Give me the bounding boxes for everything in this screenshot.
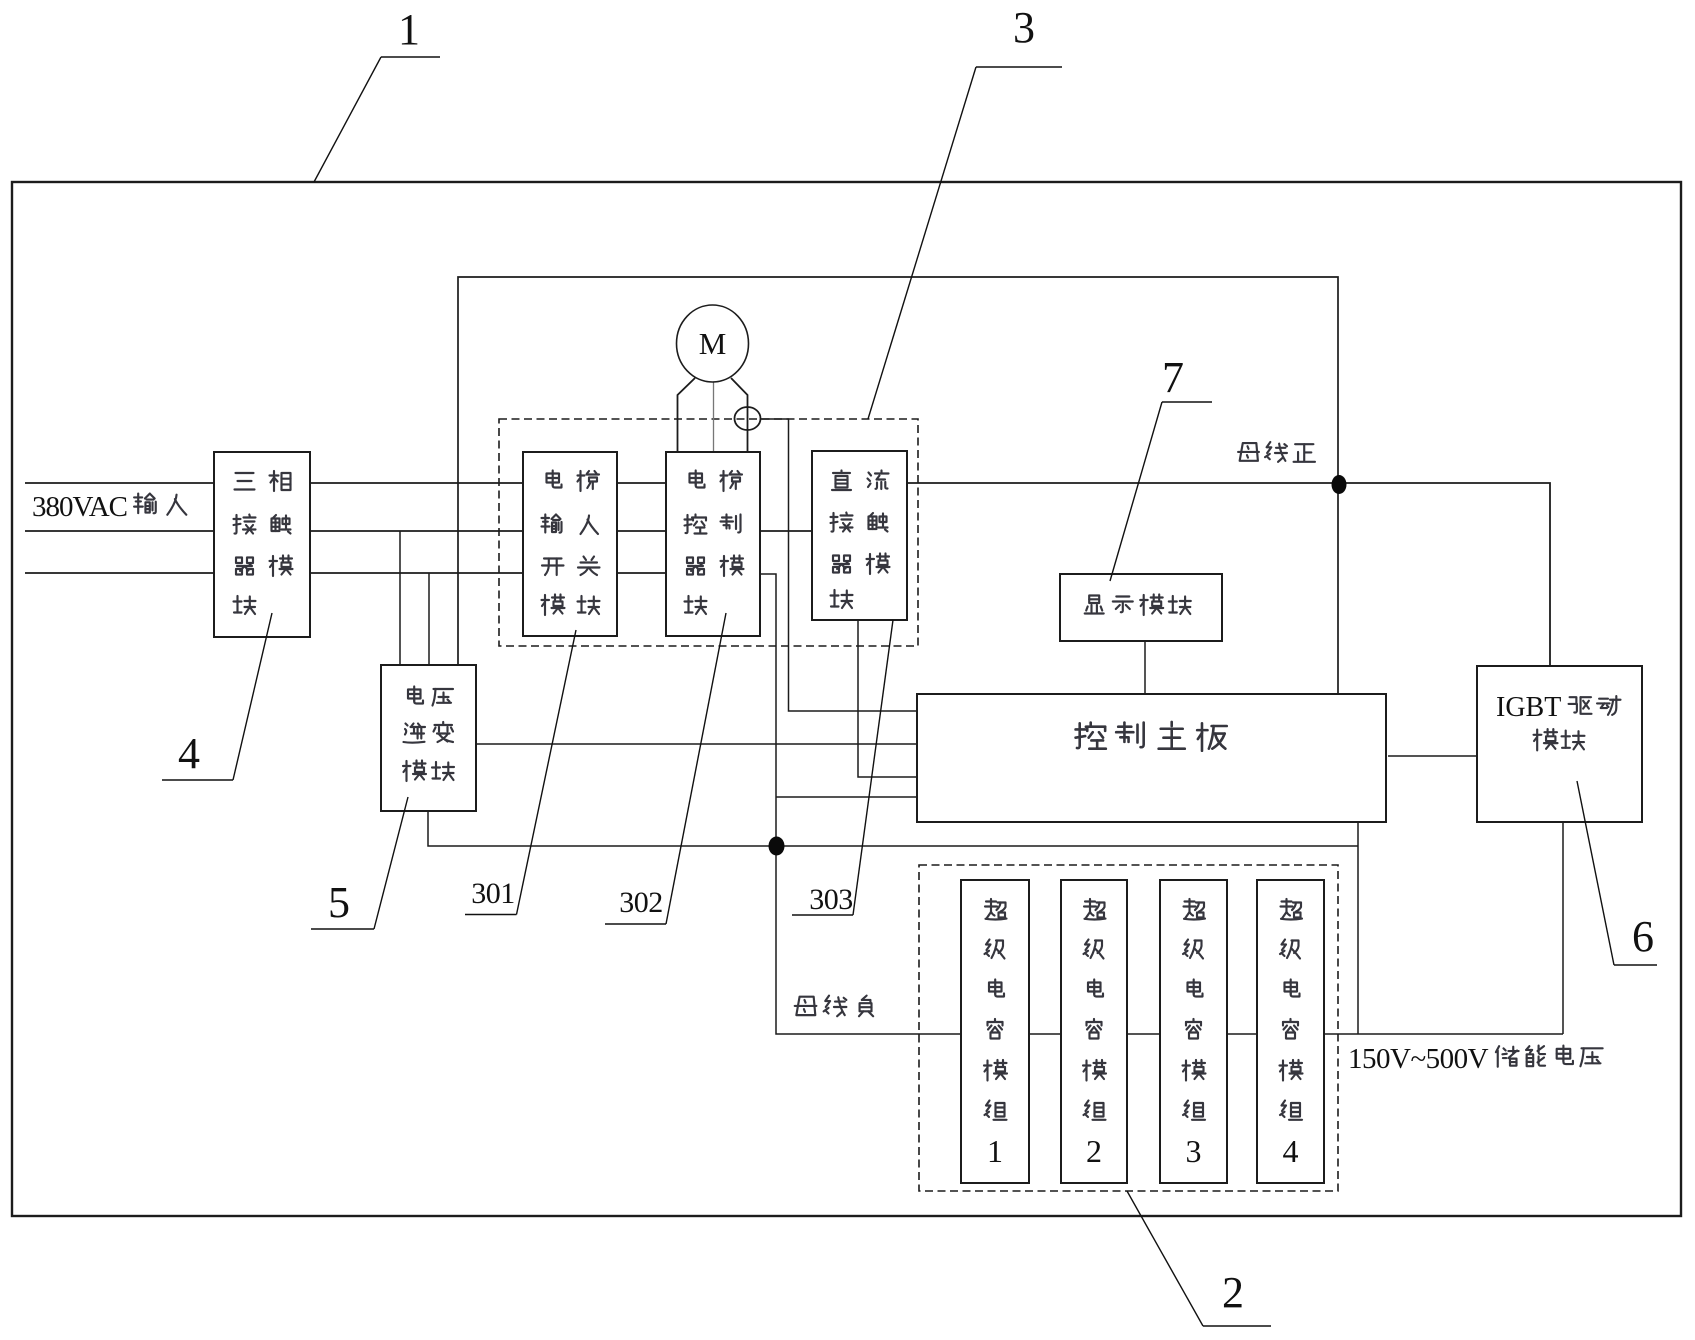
svg-text:IGBT: IGBT <box>1496 692 1561 723</box>
svg-text:3: 3 <box>1186 1133 1202 1169</box>
svg-text:1: 1 <box>987 1133 1003 1169</box>
svg-text:1: 1 <box>398 5 420 54</box>
svg-text:7: 7 <box>1162 353 1184 402</box>
svg-text:301: 301 <box>471 877 515 910</box>
svg-text:2: 2 <box>1222 1268 1244 1317</box>
svg-text:2: 2 <box>1086 1133 1102 1169</box>
svg-text:302: 302 <box>619 886 663 919</box>
svg-text:380VAC: 380VAC <box>32 491 127 523</box>
svg-text:M: M <box>699 326 727 361</box>
svg-text:4: 4 <box>1283 1133 1299 1169</box>
svg-text:150V~500V: 150V~500V <box>1348 1043 1489 1075</box>
svg-text:5: 5 <box>328 878 350 927</box>
svg-text:303: 303 <box>809 883 853 916</box>
svg-text:3: 3 <box>1013 3 1035 52</box>
svg-text:4: 4 <box>178 729 200 778</box>
svg-text:6: 6 <box>1632 912 1654 961</box>
